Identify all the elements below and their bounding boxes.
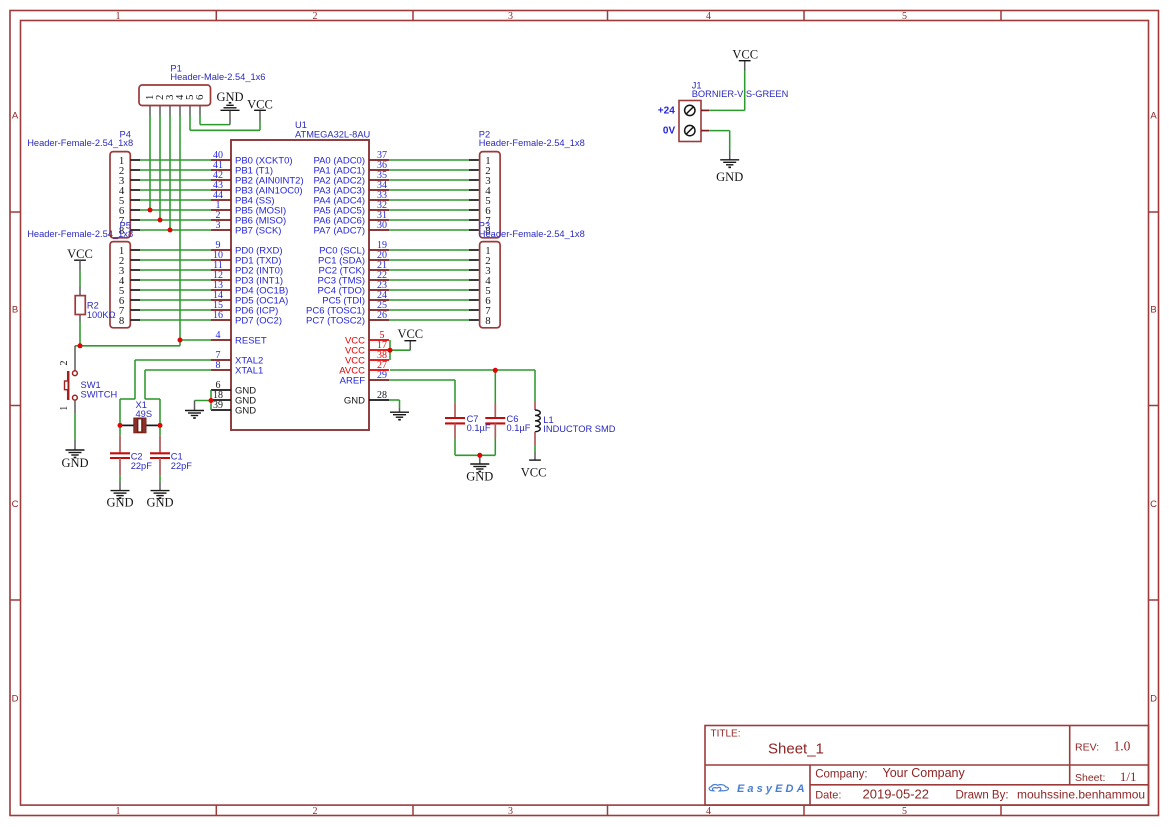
svg-text:A: A: [1150, 111, 1157, 122]
crystal X1: [120, 418, 160, 433]
wire J1 pin1 to VCC: [709, 71, 745, 111]
switch SW1: [59, 346, 80, 413]
svg-text:B: B: [12, 305, 18, 316]
label U1: [295, 120, 307, 130]
inductor L1: [535, 401, 540, 445]
label C7: [467, 414, 479, 424]
label J1: [692, 81, 702, 91]
junction P1.3/PB7: [168, 228, 173, 233]
label Header-Female-2.54_1x8 (P4): [27, 138, 133, 148]
svg-text:mouhssine.benhammou: mouhssine.benhammou: [1017, 788, 1145, 802]
header P5: [110, 242, 130, 328]
junction P1.1/PB5: [148, 208, 153, 213]
ground flag below C6/C7: [466, 455, 493, 483]
label P1: [170, 64, 181, 74]
U1 pin 14 PD5 (OC1A): [211, 290, 288, 306]
svg-text:3: 3: [216, 220, 221, 231]
U1 pin 33 PA4 (ADC4): [313, 190, 389, 206]
svg-text:49S: 49S: [136, 409, 153, 419]
VCC flag below L1: [521, 452, 547, 479]
U1 pin 27 AVCC: [339, 360, 389, 376]
wire X1 left to C2: [119, 425, 121, 435]
VCC flag above R2: [67, 247, 93, 270]
svg-text:2: 2: [59, 361, 70, 366]
svg-text:5: 5: [902, 806, 907, 817]
svg-text:5: 5: [902, 11, 907, 22]
svg-text:EasyEDA: EasyEDA: [737, 783, 808, 795]
svg-text:Date:: Date:: [815, 790, 841, 802]
label P2: [479, 130, 490, 140]
svg-text:D: D: [1150, 694, 1157, 705]
U1 pin 15 PD6 (ICP): [211, 300, 278, 316]
header P3: [480, 242, 501, 328]
wires P4 to U1 PB pins: [140, 160, 211, 230]
label SWITCH: [81, 390, 118, 400]
svg-text:8: 8: [119, 315, 124, 327]
U1 pin 39 GND: [211, 400, 256, 416]
svg-text:Sheet_1: Sheet_1: [768, 741, 824, 758]
U1 pin 10 PD1 (TXD): [211, 250, 281, 266]
U1 pin 18 GND: [211, 390, 256, 406]
svg-text:A: A: [12, 111, 19, 122]
capacitor C1: [150, 436, 170, 476]
capacitor C7: [445, 403, 465, 439]
U1 pin 41 PB1 (T1): [211, 160, 273, 176]
wire R2 to RESET junction: [79, 322, 81, 346]
label ATMEGA32L-8AU: [295, 130, 370, 140]
svg-text:4: 4: [706, 11, 711, 22]
svg-text:16: 16: [213, 310, 223, 321]
svg-text:39: 39: [213, 400, 223, 411]
ground flag below pin 28: [390, 407, 409, 419]
junction GND bracket: [209, 398, 214, 403]
ground flag below SW1: [61, 440, 88, 470]
wire P1 pin1 to P4 pin6 row: [149, 116, 151, 211]
svg-text:8: 8: [485, 315, 490, 327]
ground flag near P1: [216, 90, 243, 125]
svg-text:GND: GND: [216, 90, 243, 104]
svg-text:Company:: Company:: [815, 768, 867, 780]
U1 pin 5 VCC: [345, 330, 389, 346]
svg-text:XTAL1: XTAL1: [235, 365, 263, 376]
wire X1 right to C1: [159, 425, 161, 435]
wire GND bracket pins 6-18-39: [195, 390, 212, 410]
svg-text:Header-Female-2.54_1x8: Header-Female-2.54_1x8: [27, 229, 133, 239]
svg-text:BORNIER-VIS-GREEN: BORNIER-VIS-GREEN: [692, 89, 789, 99]
svg-text:28: 28: [377, 390, 387, 401]
wire L1 to VCC: [534, 445, 536, 452]
U1 pin 20 PC1 (SDA): [318, 250, 389, 266]
svg-text:Header-Female-2.54_1x8: Header-Female-2.54_1x8: [479, 229, 585, 239]
svg-text:2: 2: [313, 11, 318, 22]
svg-text:4: 4: [216, 330, 221, 341]
svg-text:6: 6: [194, 94, 206, 100]
wire AREF to C7: [389, 380, 455, 403]
wire P1 pin6 to GND: [200, 116, 230, 125]
svg-text:AREF: AREF: [340, 375, 366, 386]
wire SW1 to ground: [74, 413, 76, 440]
label Header-Female-2.54_1x8 (P2): [479, 138, 585, 148]
svg-text:100KΩ: 100KΩ: [87, 310, 116, 320]
U1 pin 13 PD4 (OC1B): [211, 280, 288, 296]
U1 pin 22 PC3 (TMS): [318, 270, 390, 286]
svg-text:Drawn By:: Drawn By:: [956, 790, 1009, 802]
label 22pF (C1): [171, 461, 193, 471]
U1 pin 35 PA2 (ADC2): [313, 170, 389, 186]
junction RESET/P1.4: [178, 338, 183, 343]
wire C7 bottom: [455, 439, 495, 456]
svg-text:Header-Male-2.54_1x6: Header-Male-2.54_1x6: [170, 72, 265, 82]
svg-text:4: 4: [706, 806, 711, 817]
svg-text:2019-05-22: 2019-05-22: [863, 787, 930, 802]
svg-text:PD7 (OC2): PD7 (OC2): [235, 315, 282, 326]
label C2: [131, 452, 143, 462]
P5 pin stubs: [130, 250, 140, 320]
P1 pin stubs: [150, 106, 200, 116]
header P1: [139, 85, 211, 106]
IC U1 ATMEGA32L-8AU body: [231, 140, 369, 430]
U1 pin 3 PB7 (SCK): [211, 220, 281, 236]
junction VCC bracket: [388, 348, 393, 353]
svg-text:Header-Female-2.54_1x8: Header-Female-2.54_1x8: [27, 138, 133, 148]
label 22pF (C2): [131, 461, 153, 471]
svg-text:VCC: VCC: [521, 465, 547, 479]
U1 pin 23 PC4 (TDO): [318, 280, 390, 296]
label C6: [507, 414, 519, 424]
wire AVCC net: [390, 369, 535, 371]
P2 pin stubs: [469, 160, 479, 230]
svg-text:VCC: VCC: [247, 97, 273, 111]
label +24: [658, 106, 675, 117]
U1 pin 21 PC2 (TCK): [319, 260, 389, 276]
U1 pin 19 PC0 (SCL): [319, 240, 389, 256]
svg-text:PB7 (SCK): PB7 (SCK): [235, 225, 281, 236]
U1 pin 30 PA7 (ADC7): [313, 220, 389, 236]
U1 pin 8 XTAL1: [211, 360, 263, 376]
label 0.1µF (C6): [507, 423, 531, 433]
svg-text:D: D: [12, 694, 19, 705]
label Header-Female-2.54_1x8 (P5): [27, 229, 133, 239]
header P2: [480, 152, 501, 238]
svg-text:GND: GND: [146, 496, 173, 510]
U1 pin 25 PC6 (TOSC1): [306, 300, 389, 316]
svg-text:2: 2: [313, 806, 318, 817]
label P3: [479, 220, 490, 230]
wire AVCC to L1: [534, 370, 536, 401]
P4 pin stubs: [130, 160, 140, 230]
svg-text:C: C: [1150, 499, 1157, 510]
svg-text:GND: GND: [61, 456, 88, 470]
U1 pin 4 RESET: [211, 330, 267, 346]
label Header-Female-2.54_1x8 (P3): [479, 229, 585, 239]
svg-text:C: C: [12, 499, 19, 510]
U1 pin 40 PB0 (XCKT0): [211, 150, 293, 166]
svg-text:SWITCH: SWITCH: [81, 390, 118, 400]
wire XTAL2 net: [120, 360, 211, 425]
ground flag left of U1: [185, 401, 204, 419]
wires P5 to U1 PD pins: [140, 250, 211, 320]
junction X1 left: [118, 423, 123, 428]
U1 pin 24 PC5 (TDI): [322, 290, 389, 306]
capacitor C6: [485, 403, 505, 439]
U1 pin 44 PB4 (SS): [211, 190, 275, 206]
label P4: [120, 130, 131, 140]
U1 pin 7 XTAL2: [211, 350, 263, 366]
svg-text:TITLE:: TITLE:: [711, 729, 741, 740]
wire AVCC to C6: [494, 370, 496, 403]
svg-text:30: 30: [377, 220, 387, 231]
svg-text:VCC: VCC: [397, 327, 423, 341]
svg-text:1: 1: [116, 11, 121, 22]
svg-text:26: 26: [377, 310, 387, 321]
U1 pin 42 PB2 (AIN0INT2): [211, 170, 304, 186]
junction AVCC/C6: [493, 368, 498, 373]
ground flag below C1: [146, 481, 173, 509]
U1 pin 17 VCC: [345, 340, 389, 356]
svg-text:PA7 (ADC7): PA7 (ADC7): [313, 225, 365, 236]
U1 pin 12 PD3 (INT1): [211, 270, 283, 286]
label SW1: [81, 380, 101, 390]
label 49S: [136, 409, 153, 419]
svg-text:PC7 (TOSC2): PC7 (TOSC2): [306, 315, 365, 326]
junction C6-C7 ground: [477, 453, 482, 458]
U1 pin 38 VCC: [345, 350, 389, 366]
U1 pin 32 PA5 (ADC5): [313, 200, 389, 216]
U1 pin 28 GND: [344, 390, 389, 406]
svg-text:1: 1: [116, 806, 121, 817]
label 0V: [663, 126, 676, 137]
svg-text:GND: GND: [344, 395, 365, 406]
wire VCC to R2: [79, 271, 81, 287]
label C1: [171, 452, 183, 462]
svg-text:8: 8: [216, 360, 221, 371]
wires U1 PA pins to P2: [389, 160, 469, 230]
junction RESET/R2/SW1: [78, 343, 83, 348]
capacitor C2: [110, 436, 130, 476]
wire P1 pin3 to P4 pin8 row: [169, 116, 171, 231]
svg-text:3: 3: [508, 11, 513, 22]
U1 pin 34 PA3 (ADC3): [313, 180, 389, 196]
svg-text:0.1µF: 0.1µF: [507, 423, 531, 433]
svg-text:22pF: 22pF: [131, 461, 153, 471]
U1 pin 11 PD2 (INT0): [211, 260, 283, 276]
wire RESET net: [80, 340, 211, 346]
U1 pin 1 PB5 (MOSI): [211, 200, 286, 216]
svg-text:1/1: 1/1: [1120, 769, 1137, 784]
svg-text:GND: GND: [716, 170, 743, 184]
wires U1 PC pins to P3: [389, 250, 469, 320]
U1 pin 37 PA0 (ADC0): [313, 150, 389, 166]
header P4: [110, 152, 130, 238]
svg-text:29: 29: [377, 370, 387, 381]
wire C6 bottom: [494, 439, 496, 456]
label R2: [87, 301, 99, 311]
wire GND pin 28: [389, 400, 400, 407]
svg-text:1: 1: [59, 406, 70, 411]
svg-text:VCC: VCC: [67, 247, 93, 261]
svg-text:3: 3: [508, 806, 513, 817]
svg-text:RESET: RESET: [235, 335, 267, 346]
svg-text:Your Company: Your Company: [883, 766, 966, 780]
junction X1 right: [158, 423, 163, 428]
svg-text:GND: GND: [466, 470, 493, 484]
wire C1 to ground: [159, 476, 161, 482]
wire P1 pin5 to VCC: [190, 116, 260, 131]
U1 pin 9 PD0 (RXD): [211, 240, 283, 256]
label L1: [543, 415, 553, 425]
U1 pin 16 PD7 (OC2): [211, 310, 282, 326]
label Header-Male-2.54_1x6: [170, 72, 265, 82]
svg-text:ATMEGA32L-8AU: ATMEGA32L-8AU: [295, 130, 370, 140]
svg-text:SW1: SW1: [81, 380, 101, 390]
svg-text:GND: GND: [106, 496, 133, 510]
svg-text:B: B: [1150, 305, 1156, 316]
svg-text:U1: U1: [295, 120, 307, 130]
label BORNIER-VIS-GREEN: [692, 89, 789, 99]
svg-text:0V: 0V: [663, 126, 676, 137]
wire J1 pin2 to GND: [709, 131, 730, 151]
VCC flag near P1: [247, 97, 273, 130]
ground flag below J1: [716, 151, 743, 185]
U1 pin 36 PA1 (ADC1): [313, 160, 389, 176]
svg-text:VCC: VCC: [732, 48, 758, 62]
svg-text:GND: GND: [235, 405, 256, 416]
connector J1: [679, 101, 709, 142]
U1 pin 2 PB6 (MISO): [211, 210, 286, 226]
U1 pin 26 PC7 (TOSC2): [306, 310, 389, 326]
label 0.1µF (C7): [467, 423, 491, 433]
junction P1.2/PB6: [158, 218, 163, 223]
label P5: [120, 220, 131, 230]
U1 pin 31 PA6 (ADC6): [313, 210, 389, 226]
wire P1 pin4 to RESET: [179, 116, 181, 341]
svg-text:1.0: 1.0: [1114, 739, 1131, 754]
resistor R2: [75, 287, 85, 323]
U1 pin 43 PB3 (AIN1OC0): [211, 180, 303, 196]
wire VCC bracket pins 5-17-38: [390, 340, 410, 360]
VCC flag right of U1: [397, 327, 423, 350]
label INDUCTOR SMD: [543, 424, 615, 434]
wire XTAL1 net: [145, 370, 211, 425]
svg-text:22pF: 22pF: [171, 461, 193, 471]
U1 pin 29 AREF: [340, 370, 389, 386]
U1 pin 6 GND: [211, 380, 256, 396]
label 100KΩ: [87, 310, 116, 320]
VCC flag above J1: [732, 48, 758, 71]
svg-text:Sheet:: Sheet:: [1075, 772, 1105, 784]
wire C2 to ground: [119, 476, 121, 482]
P3 pin stubs: [469, 250, 479, 320]
label X1: [136, 400, 147, 410]
svg-text:Header-Female-2.54_1x8: Header-Female-2.54_1x8: [479, 138, 585, 148]
svg-text:+24: +24: [658, 106, 675, 117]
svg-text:INDUCTOR SMD: INDUCTOR SMD: [543, 424, 615, 434]
svg-text:0.1µF: 0.1µF: [467, 423, 491, 433]
wire P1 pin2 to P4 pin7 row: [159, 116, 161, 221]
ground flag below C2: [106, 481, 133, 509]
svg-text:REV:: REV:: [1075, 742, 1099, 754]
